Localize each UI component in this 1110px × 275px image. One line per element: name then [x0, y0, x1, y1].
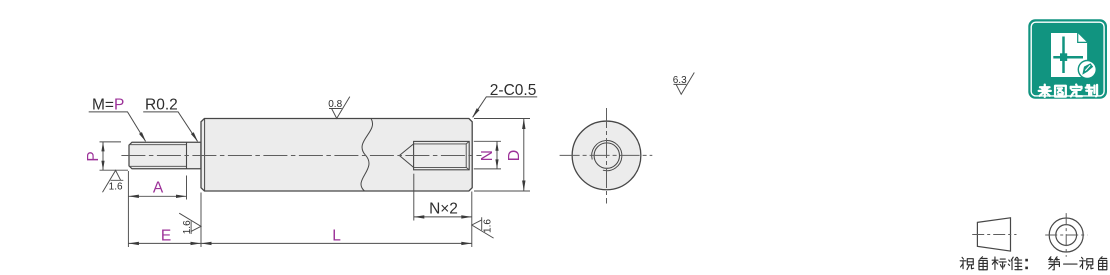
svg-text:D: D: [506, 150, 523, 162]
svg-text:0.8: 0.8: [328, 99, 342, 110]
svg-text:L: L: [332, 227, 341, 244]
svg-text:R0.2: R0.2: [145, 97, 178, 114]
svg-text:2-C0.5: 2-C0.5: [490, 82, 537, 99]
svg-text:E: E: [161, 227, 171, 244]
svg-text:6.3: 6.3: [673, 75, 687, 86]
svg-text:M=P: M=P: [92, 97, 124, 114]
svg-text:P: P: [85, 151, 102, 161]
svg-text:1.6: 1.6: [109, 181, 123, 192]
svg-text:N: N: [479, 150, 496, 161]
svg-text:N×2: N×2: [429, 201, 458, 218]
svg-text:1.6: 1.6: [483, 219, 494, 233]
svg-text:A: A: [153, 180, 164, 197]
svg-text:1.6: 1.6: [182, 220, 193, 234]
